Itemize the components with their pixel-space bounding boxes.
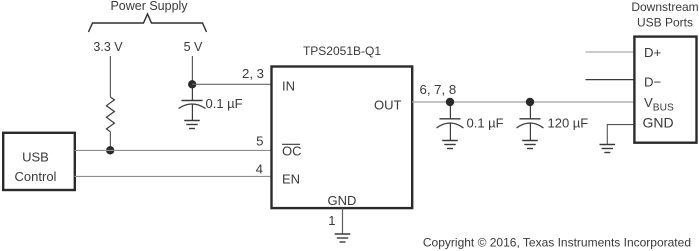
svg-text:OC: OC (282, 144, 302, 159)
ground symbol IC GND (335, 234, 351, 242)
wire OUT to VBUS (412, 101, 635, 103)
wire 3.3V to resistor (109, 56, 111, 97)
junction dot IN node (188, 80, 196, 88)
svg-text:EN: EN (282, 172, 300, 187)
ground symbol output cap 2 (522, 141, 538, 149)
svg-text:5: 5 (256, 134, 263, 149)
svg-text:Copyright © 2016, Texas Instru: Copyright © 2016, Texas Instruments Inco… (423, 236, 691, 250)
wire IC GND pin 1 (342, 209, 344, 235)
junction dot OC/resistor node (106, 146, 114, 154)
junction dot output cap 1 (446, 98, 454, 106)
wire IN node to IN pin (192, 83, 271, 85)
wire D+ stub (586, 51, 636, 53)
svg-text:0.1 µF: 0.1 µF (206, 96, 243, 111)
svg-text:IN: IN (282, 79, 295, 94)
USB Control box (3, 133, 75, 190)
wire USB control to OC pin (75, 149, 271, 151)
svg-text:USB: USB (22, 150, 49, 165)
wire USB control to EN pin (75, 175, 271, 177)
downstream USB ports box (634, 37, 696, 143)
ground symbol output cap 1 (442, 141, 458, 149)
wire 5V to IN node (191, 56, 193, 84)
capacitor input 0.1 uF (179, 88, 206, 121)
ground symbol downstream (600, 145, 616, 153)
svg-text:6, 7, 8: 6, 7, 8 (420, 82, 457, 97)
svg-text:0.1 µF: 0.1 µF (467, 116, 504, 131)
svg-text:D+: D+ (644, 45, 662, 60)
svg-text:1: 1 (328, 213, 335, 228)
IC U1 TPS2051B-Q1 box (272, 67, 413, 209)
power supply brace (89, 14, 207, 32)
junction dot output cap 2 (526, 98, 534, 106)
svg-text:5 V: 5 V (184, 40, 203, 54)
svg-text:GND: GND (328, 193, 357, 208)
svg-text:Downstream: Downstream (631, 0, 698, 14)
svg-text:120 µF: 120 µF (548, 116, 589, 131)
svg-text:3.3 V: 3.3 V (93, 40, 123, 54)
svg-text:USB Ports: USB Ports (637, 16, 693, 30)
wire D- stub (586, 79, 636, 81)
capacitor output 120 uF (517, 106, 544, 141)
svg-text:GND: GND (643, 115, 674, 131)
svg-text:OUT: OUT (374, 98, 402, 113)
wire downstream GND stub (607, 125, 635, 145)
svg-text:Control: Control (15, 169, 57, 184)
svg-text:D−: D− (644, 74, 662, 89)
ground symbol input cap (184, 121, 200, 129)
capacitor output 0.1 uF (437, 106, 464, 141)
wire resistor to OC net (109, 132, 111, 150)
svg-text:TPS2051B-Q1: TPS2051B-Q1 (303, 44, 381, 58)
resistor pull-up on OC (106, 97, 114, 132)
svg-text:Power Supply: Power Supply (110, 0, 188, 13)
svg-text:4: 4 (256, 162, 263, 177)
svg-text:2, 3: 2, 3 (242, 66, 264, 81)
